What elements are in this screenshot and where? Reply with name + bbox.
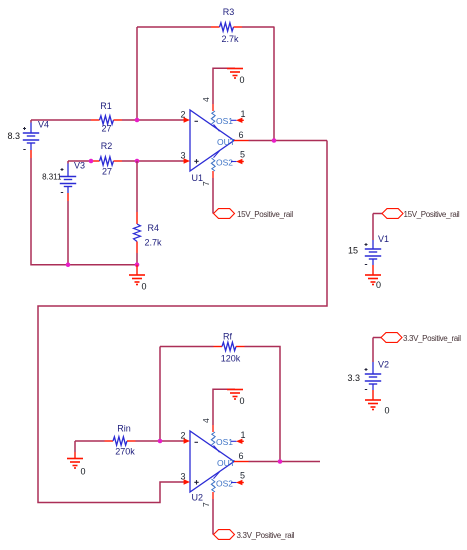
wire feedback left vertical down to R1 node	[136, 27, 138, 120]
wire V4 minus down to rail	[31, 158, 137, 265]
svg-text:OUT: OUT	[217, 137, 235, 147]
wire V1 to 15V rail symbol	[373, 213, 382, 215]
svg-text:OS1: OS1	[216, 437, 233, 447]
U1 pin 7 wire	[201, 164, 215, 214]
wire top feedback horizontal left (R3 left)	[137, 26, 211, 28]
ground 0 below V2	[365, 393, 390, 416]
svg-text:6: 6	[239, 451, 244, 461]
power symbol 3.3V rail at V2	[381, 333, 461, 343]
junction node U2 out/Rf	[278, 459, 283, 464]
svg-text:R3: R3	[223, 7, 235, 17]
U1 pin 2 arrow	[180, 110, 190, 123]
junction node R4/rail/ground	[135, 262, 140, 267]
svg-text:5: 5	[240, 150, 245, 160]
svg-text:Rin: Rin	[117, 424, 131, 434]
wire U1 output to right	[249, 140, 328, 142]
U1 OS2 pin 5	[211, 150, 245, 168]
svg-text:27: 27	[101, 124, 111, 134]
svg-text:Rf: Rf	[223, 332, 232, 342]
svg-text:OS2: OS2	[216, 479, 233, 489]
U1 pin 4 wire and ground	[201, 68, 235, 118]
junction node OUT/feedback	[272, 138, 277, 143]
wire V3 to R2	[68, 160, 91, 162]
voltage source V1	[348, 214, 389, 269]
svg-text:OS2: OS2	[216, 158, 233, 168]
svg-text:OUT: OUT	[217, 458, 235, 468]
power symbol 15V rail at V1	[382, 209, 460, 219]
svg-text:R2: R2	[101, 141, 113, 151]
wire input to Rin	[75, 440, 105, 442]
voltage source V2	[347, 338, 389, 394]
svg-text:15: 15	[348, 246, 358, 256]
svg-text:3.3V_Positive_rail: 3.3V_Positive_rail	[403, 334, 461, 343]
svg-text:2.7k: 2.7k	[145, 238, 163, 248]
svg-text:V3: V3	[74, 161, 85, 171]
wire R2 node down to R4	[136, 161, 138, 212]
svg-text:0: 0	[376, 280, 381, 290]
wire Rf right leg down to U2 out	[245, 347, 281, 462]
svg-text:U2: U2	[192, 493, 204, 503]
svg-text:270k: 270k	[115, 447, 135, 457]
svg-text:V4: V4	[38, 120, 49, 130]
wire Rf feedback down to U2 pin2 node	[159, 347, 161, 442]
svg-text:1: 1	[241, 430, 246, 440]
svg-text:0: 0	[240, 396, 245, 406]
wire R4 to rail	[136, 253, 138, 265]
voltage source V4	[7, 120, 49, 159]
U1 pin 3 arrow	[180, 151, 190, 164]
svg-text:V2: V2	[378, 360, 389, 370]
op-amp U1	[190, 110, 234, 183]
wire output loop down and across to bottom stage	[38, 141, 327, 503]
U2 OS1 pin 1	[211, 430, 245, 452]
svg-text:2.7k: 2.7k	[221, 34, 239, 44]
svg-text:5: 5	[240, 471, 245, 481]
U2 pin 2 arrow	[180, 431, 190, 444]
ground 0 below V1	[365, 268, 381, 290]
wire V4 to R1	[31, 119, 91, 121]
wire U2 output to right	[249, 461, 321, 463]
svg-text:120k: 120k	[221, 354, 241, 364]
svg-text:15V_Positive_rail: 15V_Positive_rail	[404, 210, 460, 219]
ground 0 at Rin input	[67, 441, 86, 477]
op-amp U2	[190, 431, 234, 503]
svg-text:15V_Positive_rail: 15V_Positive_rail	[237, 210, 293, 219]
voltage source V3	[42, 161, 85, 202]
resistor R4	[134, 212, 163, 253]
svg-text:0: 0	[385, 406, 390, 416]
svg-text:7: 7	[201, 502, 211, 507]
junction node V3/rail	[66, 262, 71, 267]
wire R1 to U1 pin2	[122, 119, 183, 121]
svg-text:R4: R4	[148, 223, 160, 233]
junction node Rf/Rin	[158, 439, 163, 444]
svg-text:0: 0	[240, 75, 245, 85]
junction node V3/R2	[89, 159, 94, 164]
ground 0 above U1	[227, 69, 245, 86]
svg-text:3.3: 3.3	[347, 373, 360, 383]
svg-text:0: 0	[81, 467, 86, 477]
svg-text:2: 2	[180, 431, 185, 441]
svg-text:27: 27	[102, 167, 112, 177]
wire feedback right vertical down to OUT node	[273, 27, 275, 141]
wire V3 minus down to rail	[67, 201, 69, 265]
resistor R2	[91, 141, 122, 177]
svg-text:4: 4	[201, 97, 211, 102]
svg-text:7: 7	[201, 181, 211, 186]
wire R2 to U1 pin3	[122, 160, 183, 162]
svg-text:0: 0	[142, 282, 147, 292]
ground 0 above U2	[227, 390, 245, 407]
U2 pin 4 wire and ground	[201, 389, 235, 439]
U2 pin 3 arrow	[180, 472, 190, 485]
wire Rf left leg	[160, 346, 214, 348]
svg-text:OS1: OS1	[216, 116, 233, 126]
wire V2 to 3.3V rail symbol	[373, 337, 381, 339]
U2 pin 7 wire	[201, 485, 215, 535]
svg-text:V1: V1	[378, 234, 389, 244]
U2 OUT pin 6	[217, 451, 249, 468]
junction node R2/R4	[135, 159, 140, 164]
svg-text:8.3: 8.3	[7, 131, 20, 141]
svg-text:2: 2	[180, 110, 185, 120]
U2 OS2 pin 5	[211, 471, 245, 489]
svg-text:R1: R1	[100, 101, 112, 111]
svg-text:3.3V_Positive_rail: 3.3V_Positive_rail	[237, 531, 295, 540]
resistor Rin	[105, 424, 136, 457]
resistor R3	[211, 7, 242, 44]
U1 OS1 pin 1	[211, 109, 245, 131]
power symbol 15V rail at U1	[214, 209, 294, 219]
svg-text:4: 4	[201, 418, 211, 423]
wire Rin to U2 pin2	[136, 440, 184, 442]
svg-text:3: 3	[180, 151, 185, 161]
resistor Rf	[214, 332, 245, 364]
ground 0 below R4	[129, 265, 147, 292]
wire top feedback horizontal right (R3 right)	[242, 26, 275, 28]
svg-text:3: 3	[180, 472, 185, 482]
svg-text:8.311: 8.311	[42, 173, 62, 182]
U1 OUT pin 6	[217, 130, 249, 147]
svg-text:6: 6	[239, 130, 244, 140]
power symbol 3.3V rail at U2	[214, 530, 295, 540]
resistor R1	[91, 101, 122, 134]
junction node R1/feedback	[135, 118, 140, 123]
svg-text:1: 1	[241, 109, 246, 119]
